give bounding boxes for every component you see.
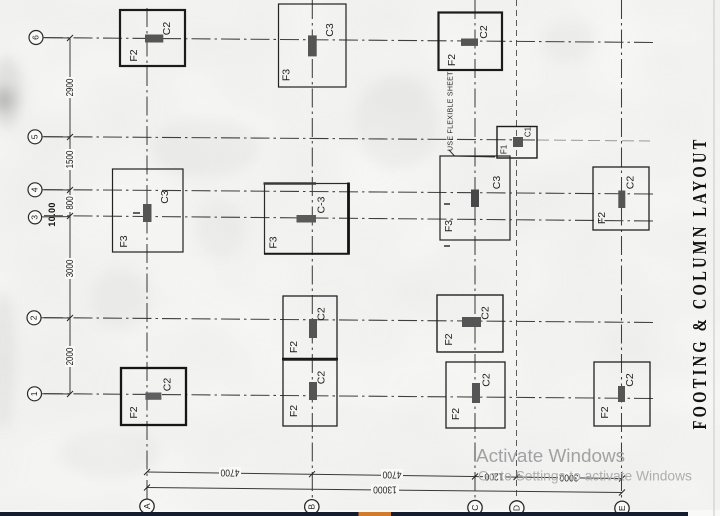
footing F2 at C6 bbox=[439, 13, 503, 71]
svg-text:C2: C2 bbox=[625, 176, 637, 190]
svg-text:F3: F3 bbox=[268, 236, 280, 248]
label C2 at B2 bbox=[316, 307, 328, 321]
label C2 at A6 bbox=[161, 22, 173, 36]
footing F2 at E1 bbox=[594, 362, 650, 426]
grid bubble 4 bbox=[28, 183, 70, 197]
grid line 5 bbox=[44, 137, 650, 141]
footing F3 at B34 bbox=[264, 183, 350, 255]
grid bubble D bbox=[510, 501, 524, 515]
label F2 at B2 bbox=[288, 341, 300, 353]
svg-text:3: 3 bbox=[30, 215, 40, 220]
taskbar icon strip bbox=[359, 512, 392, 516]
dimension 2000 bbox=[64, 346, 75, 367]
label C2 at C6 bbox=[478, 25, 490, 39]
column C3 at A34 bbox=[143, 204, 152, 222]
svg-text:D: D bbox=[512, 505, 522, 511]
column C2 at C1row1 bbox=[472, 383, 480, 403]
grid line 6 bbox=[44, 38, 657, 43]
label C3 at A34 bbox=[159, 190, 171, 204]
dimension 1200 C-D bbox=[483, 471, 505, 482]
label F2 at C1row1 bbox=[450, 408, 462, 420]
svg-text:C2: C2 bbox=[316, 371, 328, 385]
label F2 at A1 bbox=[128, 406, 140, 418]
grid bubble 3 bbox=[28, 211, 70, 224]
footing F2 at B2 bbox=[282, 296, 338, 360]
column C2 at C6 bbox=[461, 39, 478, 46]
svg-text:2000: 2000 bbox=[64, 348, 75, 366]
grid bubble E bbox=[615, 501, 629, 515]
label F2 at E1 bbox=[599, 406, 611, 418]
svg-text:F1: F1 bbox=[500, 144, 509, 154]
svg-text:800: 800 bbox=[64, 196, 75, 209]
label F1 at D5 bbox=[500, 144, 509, 154]
watermark Activate Windows bbox=[476, 446, 625, 467]
column C1 at D5 bbox=[513, 137, 523, 147]
svg-text:FOOTING & COLUMN LAYOUT: FOOTING & COLUMN LAYOUT bbox=[688, 136, 711, 429]
label F3 at B34 bbox=[268, 236, 280, 248]
svg-text:C3: C3 bbox=[159, 190, 171, 204]
grid line 3 bbox=[44, 216, 655, 221]
label C2 at E34 bbox=[625, 176, 637, 190]
svg-text:C2: C2 bbox=[478, 25, 490, 39]
svg-text:E: E bbox=[617, 505, 627, 511]
column C2 at A6 bbox=[145, 35, 163, 43]
grid line 1 bbox=[44, 394, 655, 399]
label F2 at E34 bbox=[596, 212, 608, 224]
svg-text:F2: F2 bbox=[288, 405, 300, 417]
label F3 at B6 bbox=[281, 69, 293, 81]
dimension 13000 bbox=[371, 484, 399, 495]
svg-text:10.00: 10.00 bbox=[47, 202, 57, 227]
svg-text:F3: F3 bbox=[118, 235, 130, 247]
column C3 at C34 bbox=[471, 190, 479, 208]
label C2 at B1 bbox=[316, 371, 328, 385]
grid line A bbox=[146, 8, 148, 499]
svg-text:1500: 1500 bbox=[64, 151, 75, 169]
svg-text:F3: F3 bbox=[443, 220, 455, 232]
footing F3 at B6 bbox=[279, 4, 347, 87]
annotation USE FLEXIBLE SHEET bbox=[448, 71, 496, 157]
svg-text:F2: F2 bbox=[599, 406, 611, 418]
svg-text:3000: 3000 bbox=[64, 260, 75, 278]
column C2 at E1 bbox=[618, 386, 625, 402]
grid bubble A bbox=[140, 499, 154, 513]
tick mark at A34 bbox=[133, 212, 140, 214]
column C2 at A1 bbox=[145, 393, 161, 400]
grid bubble 6 bbox=[29, 31, 70, 45]
svg-text:C1: C1 bbox=[524, 126, 533, 137]
svg-text:C2: C2 bbox=[481, 373, 493, 387]
dimension 2900 bbox=[64, 77, 75, 98]
dimension annotation 10.00 bbox=[47, 202, 57, 227]
footing F3 at A34 bbox=[113, 169, 184, 252]
svg-text:Activate Windows: Activate Windows bbox=[476, 446, 625, 467]
svg-text:5: 5 bbox=[30, 134, 40, 139]
dimension 4700 B-C bbox=[381, 469, 403, 480]
label F2 at B1 bbox=[288, 405, 300, 417]
svg-text:1: 1 bbox=[29, 391, 39, 396]
svg-text:F2: F2 bbox=[288, 341, 300, 353]
footing F2 at B1 bbox=[283, 360, 337, 426]
svg-text:F2: F2 bbox=[450, 408, 462, 420]
grid bubble C bbox=[468, 500, 482, 514]
svg-text:6: 6 bbox=[31, 35, 41, 40]
svg-text:2900: 2900 bbox=[64, 79, 75, 97]
footing F2 at E34 bbox=[593, 167, 649, 230]
svg-text:F2: F2 bbox=[128, 49, 140, 61]
label C3 at C34 bbox=[491, 176, 503, 190]
label F2 at A6 bbox=[128, 49, 140, 61]
grid bubble 2 bbox=[27, 311, 70, 325]
dimension 3000 bbox=[64, 258, 75, 279]
title FOOTING & COLUMN LAYOUT bbox=[688, 136, 711, 429]
footing F2 at A6 bbox=[120, 10, 185, 66]
label C2 at C1row1 bbox=[481, 373, 493, 387]
svg-text:C-3: C-3 bbox=[316, 196, 328, 213]
column C3 at B34 bbox=[297, 215, 317, 223]
column C2 at E34 bbox=[618, 191, 625, 209]
grid line 4 bbox=[44, 190, 655, 194]
svg-text:C2: C2 bbox=[480, 306, 492, 320]
svg-text:C2: C2 bbox=[624, 373, 636, 387]
dimension 1500 bbox=[64, 149, 75, 170]
svg-text:F3: F3 bbox=[281, 69, 293, 81]
svg-text:F2: F2 bbox=[443, 333, 455, 345]
grid bubble 1 bbox=[28, 387, 71, 401]
window edge line bbox=[713, 0, 715, 516]
dimension 800 bbox=[64, 195, 75, 212]
svg-text:C3: C3 bbox=[491, 176, 503, 190]
bottom dimension line 1 bbox=[144, 469, 625, 482]
label F2 at C6 bbox=[446, 54, 458, 66]
grid line C bbox=[474, 0, 476, 501]
label C2 at C2row2 bbox=[480, 306, 492, 320]
svg-text:2: 2 bbox=[29, 315, 39, 320]
footing F2 at C2row2 bbox=[437, 295, 503, 352]
footing F2 at A1 bbox=[121, 368, 186, 425]
label C2 at E1 bbox=[624, 373, 636, 387]
tick marks at C34 bbox=[444, 204, 450, 246]
svg-text:4700: 4700 bbox=[221, 467, 240, 478]
svg-text:C3: C3 bbox=[324, 23, 336, 37]
taskbar strip bbox=[0, 512, 688, 516]
svg-text:F2: F2 bbox=[446, 54, 458, 66]
footing F1 at D5 bbox=[497, 127, 537, 159]
svg-text:A: A bbox=[142, 503, 152, 509]
svg-text:C: C bbox=[470, 504, 480, 510]
svg-text:B: B bbox=[307, 504, 317, 510]
svg-text:13000: 13000 bbox=[373, 484, 397, 495]
svg-text:C2: C2 bbox=[162, 378, 174, 392]
column C2 at C2row2 bbox=[462, 317, 481, 327]
label C2 at A1 bbox=[162, 378, 174, 392]
label F3 at A34 bbox=[118, 235, 130, 247]
grid bubble B bbox=[305, 500, 319, 514]
footing F3 at C34 bbox=[440, 156, 510, 240]
bottom dimension line 2 bbox=[144, 485, 625, 496]
grid line E bbox=[621, 0, 623, 501]
column C2 at B2 bbox=[309, 319, 317, 338]
label C1 at D5 bbox=[524, 126, 533, 137]
dimension 3000 D-E bbox=[558, 472, 580, 483]
column C2 at B1 bbox=[309, 382, 317, 400]
label C-3 at B34 bbox=[316, 196, 328, 213]
svg-text:USE FLEXIBLE SHEET: USE FLEXIBLE SHEET bbox=[448, 71, 455, 151]
paper smudges bbox=[0, 58, 22, 128]
svg-text:F2: F2 bbox=[596, 212, 608, 224]
grid line 2 bbox=[44, 318, 657, 323]
watermark Go to Settings bbox=[478, 469, 692, 484]
svg-text:4: 4 bbox=[30, 187, 40, 192]
svg-text:F2: F2 bbox=[128, 406, 140, 418]
svg-text:4700: 4700 bbox=[383, 469, 402, 480]
grid bubble 5 bbox=[28, 130, 70, 144]
label C3 at B6 bbox=[324, 23, 336, 37]
svg-text:C2: C2 bbox=[316, 307, 328, 321]
left dimension line bbox=[67, 35, 73, 397]
svg-text:C2: C2 bbox=[161, 22, 173, 36]
footing F2 at C1row1 bbox=[446, 362, 505, 428]
label F3 at C34 bbox=[443, 220, 455, 232]
grid line B bbox=[311, 0, 313, 500]
label F2 at C2row2 bbox=[443, 333, 455, 345]
column C3 at B6 bbox=[308, 35, 317, 56]
grid line D bbox=[516, 0, 518, 501]
dimension 4700 A-B bbox=[219, 467, 241, 478]
svg-text:Go to Settings to activate Win: Go to Settings to activate Windows bbox=[478, 469, 692, 484]
